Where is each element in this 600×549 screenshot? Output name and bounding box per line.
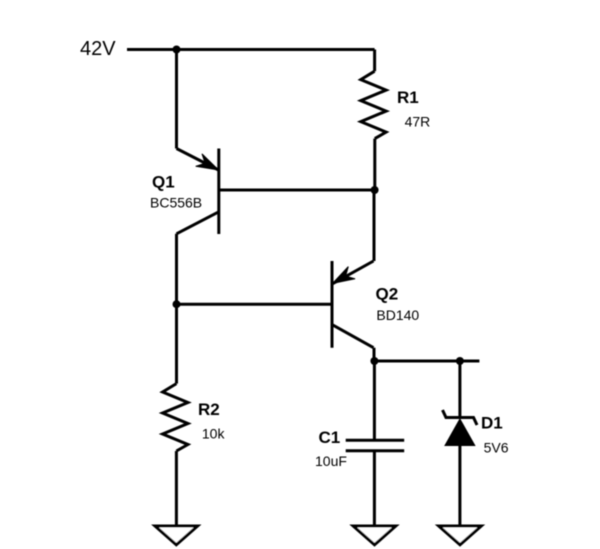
- resistor R1: [361, 71, 386, 138]
- ground C1: [353, 526, 396, 545]
- svg-text:Q2: Q2: [376, 285, 399, 304]
- wire C1 to ground: [373, 451, 376, 526]
- wire Q2 collector to node D: [373, 348, 376, 361]
- wire node D to right end: [374, 360, 479, 363]
- wire Q2 base: [177, 303, 333, 306]
- svg-text:5V6: 5V6: [484, 440, 509, 456]
- junction node E: [456, 357, 464, 365]
- wire top rail: [127, 48, 375, 51]
- wire node C to R2: [175, 304, 178, 383]
- svg-text:C1: C1: [319, 428, 341, 447]
- resistor R2: [163, 384, 188, 451]
- transistor Q2: [332, 261, 374, 348]
- wire D1 to ground: [458, 446, 461, 526]
- svg-text:10k: 10k: [202, 426, 226, 442]
- ground D1: [439, 526, 482, 545]
- svg-text:10uF: 10uF: [315, 453, 347, 469]
- wire rail to R1: [373, 50, 376, 72]
- capacitor C1: [346, 440, 405, 451]
- svg-text:D1: D1: [481, 413, 503, 432]
- wire node E to D1: [458, 361, 461, 418]
- svg-text:47R: 47R: [405, 114, 431, 130]
- svg-text:BD140: BD140: [376, 307, 419, 323]
- junction node B: [371, 186, 379, 194]
- junction node A: [173, 46, 181, 54]
- wire R2 to ground: [175, 451, 178, 526]
- svg-text:42V: 42V: [80, 38, 116, 60]
- wire node D to C1: [373, 361, 376, 440]
- svg-text:BC556B: BC556B: [150, 195, 202, 211]
- diode D1 zener: [443, 410, 478, 446]
- wire R1 to node B: [373, 139, 376, 190]
- ground R2: [155, 526, 198, 545]
- junction node D: [370, 357, 378, 365]
- wire Q1 base to node B: [219, 189, 375, 192]
- transistor Q1: [177, 149, 219, 235]
- svg-text:Q1: Q1: [152, 173, 175, 192]
- junction node C: [173, 300, 181, 308]
- wire 42V rail to Q1 emitter: [175, 50, 178, 149]
- wire Q1 collector to node C: [175, 234, 178, 304]
- svg-text:R1: R1: [397, 88, 419, 107]
- svg-text:R2: R2: [198, 400, 220, 419]
- wire node B to Q2 emitter: [373, 190, 376, 261]
